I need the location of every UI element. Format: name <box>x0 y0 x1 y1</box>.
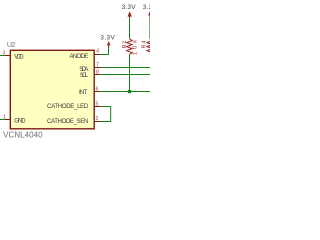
svg-text:VDD: VDD <box>14 53 24 60</box>
svg-text:1: 1 <box>3 114 6 120</box>
svg-text:3: 3 <box>3 51 6 57</box>
svg-text:ANODE: ANODE <box>70 53 89 60</box>
svg-text:R4: R4 <box>142 41 148 49</box>
svg-text:U2: U2 <box>7 40 16 49</box>
svg-text:3.3V: 3.3V <box>143 4 150 11</box>
svg-text:CATHODE_LED: CATHODE_LED <box>47 103 89 110</box>
svg-text:INT: INT <box>79 89 87 96</box>
svg-text:4: 4 <box>96 49 99 55</box>
svg-text:8: 8 <box>96 70 99 76</box>
svg-text:VCNL4040: VCNL4040 <box>3 131 43 140</box>
svg-text:2: 2 <box>96 116 99 122</box>
svg-text:3.3V: 3.3V <box>100 35 115 42</box>
svg-text:10k: 10k <box>132 40 138 55</box>
svg-text:R1: R1 <box>122 41 128 49</box>
svg-text:5: 5 <box>96 102 99 108</box>
svg-text:SCL: SCL <box>80 72 89 79</box>
svg-text:7: 7 <box>96 63 99 69</box>
svg-text:GND: GND <box>14 118 26 125</box>
svg-text:6: 6 <box>96 87 99 93</box>
svg-text:CATHODE_SEN: CATHODE_SEN <box>47 118 88 125</box>
svg-text:3.3V: 3.3V <box>122 4 137 11</box>
